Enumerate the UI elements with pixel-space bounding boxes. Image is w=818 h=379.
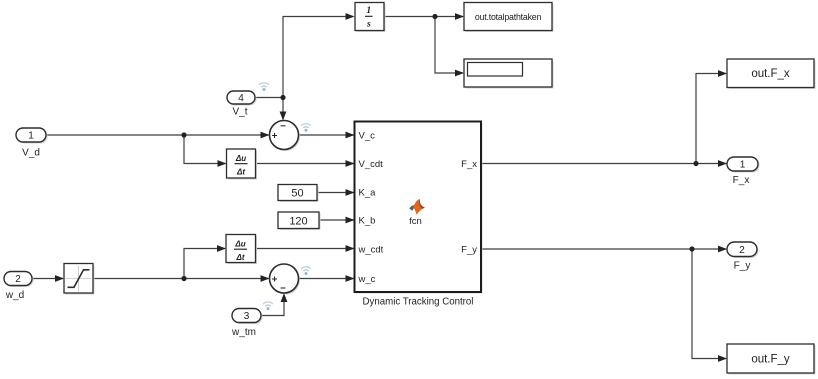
- svg-text:w_c: w_c: [358, 274, 376, 285]
- svg-text:F_y: F_y: [734, 261, 751, 272]
- svg-text:F_x: F_x: [461, 159, 477, 170]
- svg-text:out.F_x: out.F_x: [751, 68, 790, 80]
- svg-text:F_x: F_x: [733, 175, 750, 186]
- svg-text:F_y: F_y: [461, 244, 477, 255]
- svg-text:V_t: V_t: [232, 106, 247, 117]
- svg-text:120: 120: [289, 215, 307, 227]
- svg-text:V_c: V_c: [359, 130, 376, 141]
- svg-text:fcn: fcn: [409, 216, 422, 227]
- svg-text:out.totalpathtaken: out.totalpathtaken: [475, 12, 542, 22]
- svg-text:out.F_y: out.F_y: [751, 354, 790, 366]
- svg-text:Δt: Δt: [235, 253, 244, 262]
- svg-text:3: 3: [244, 311, 250, 322]
- svg-text:Δt: Δt: [236, 168, 245, 177]
- svg-text:1: 1: [28, 131, 34, 142]
- svg-text:s: s: [366, 19, 371, 29]
- svg-text:50: 50: [291, 188, 303, 200]
- svg-text:Δu: Δu: [235, 154, 246, 163]
- svg-text:2: 2: [739, 245, 745, 256]
- svg-text:Δu: Δu: [234, 240, 245, 249]
- svg-text:w_d: w_d: [5, 290, 24, 301]
- svg-text:4: 4: [238, 93, 244, 104]
- svg-text:V_cdt: V_cdt: [359, 159, 384, 170]
- svg-text:1: 1: [366, 6, 371, 16]
- svg-text:w_tm: w_tm: [231, 327, 256, 338]
- svg-text:Dynamic Tracking Control: Dynamic Tracking Control: [363, 296, 474, 307]
- svg-text:1: 1: [740, 160, 746, 171]
- svg-text:2: 2: [15, 274, 21, 285]
- svg-text:K_b: K_b: [359, 215, 376, 226]
- svg-text:w_cdt: w_cdt: [358, 244, 384, 255]
- svg-text:V_d: V_d: [22, 147, 40, 158]
- svg-text:K_a: K_a: [359, 187, 377, 198]
